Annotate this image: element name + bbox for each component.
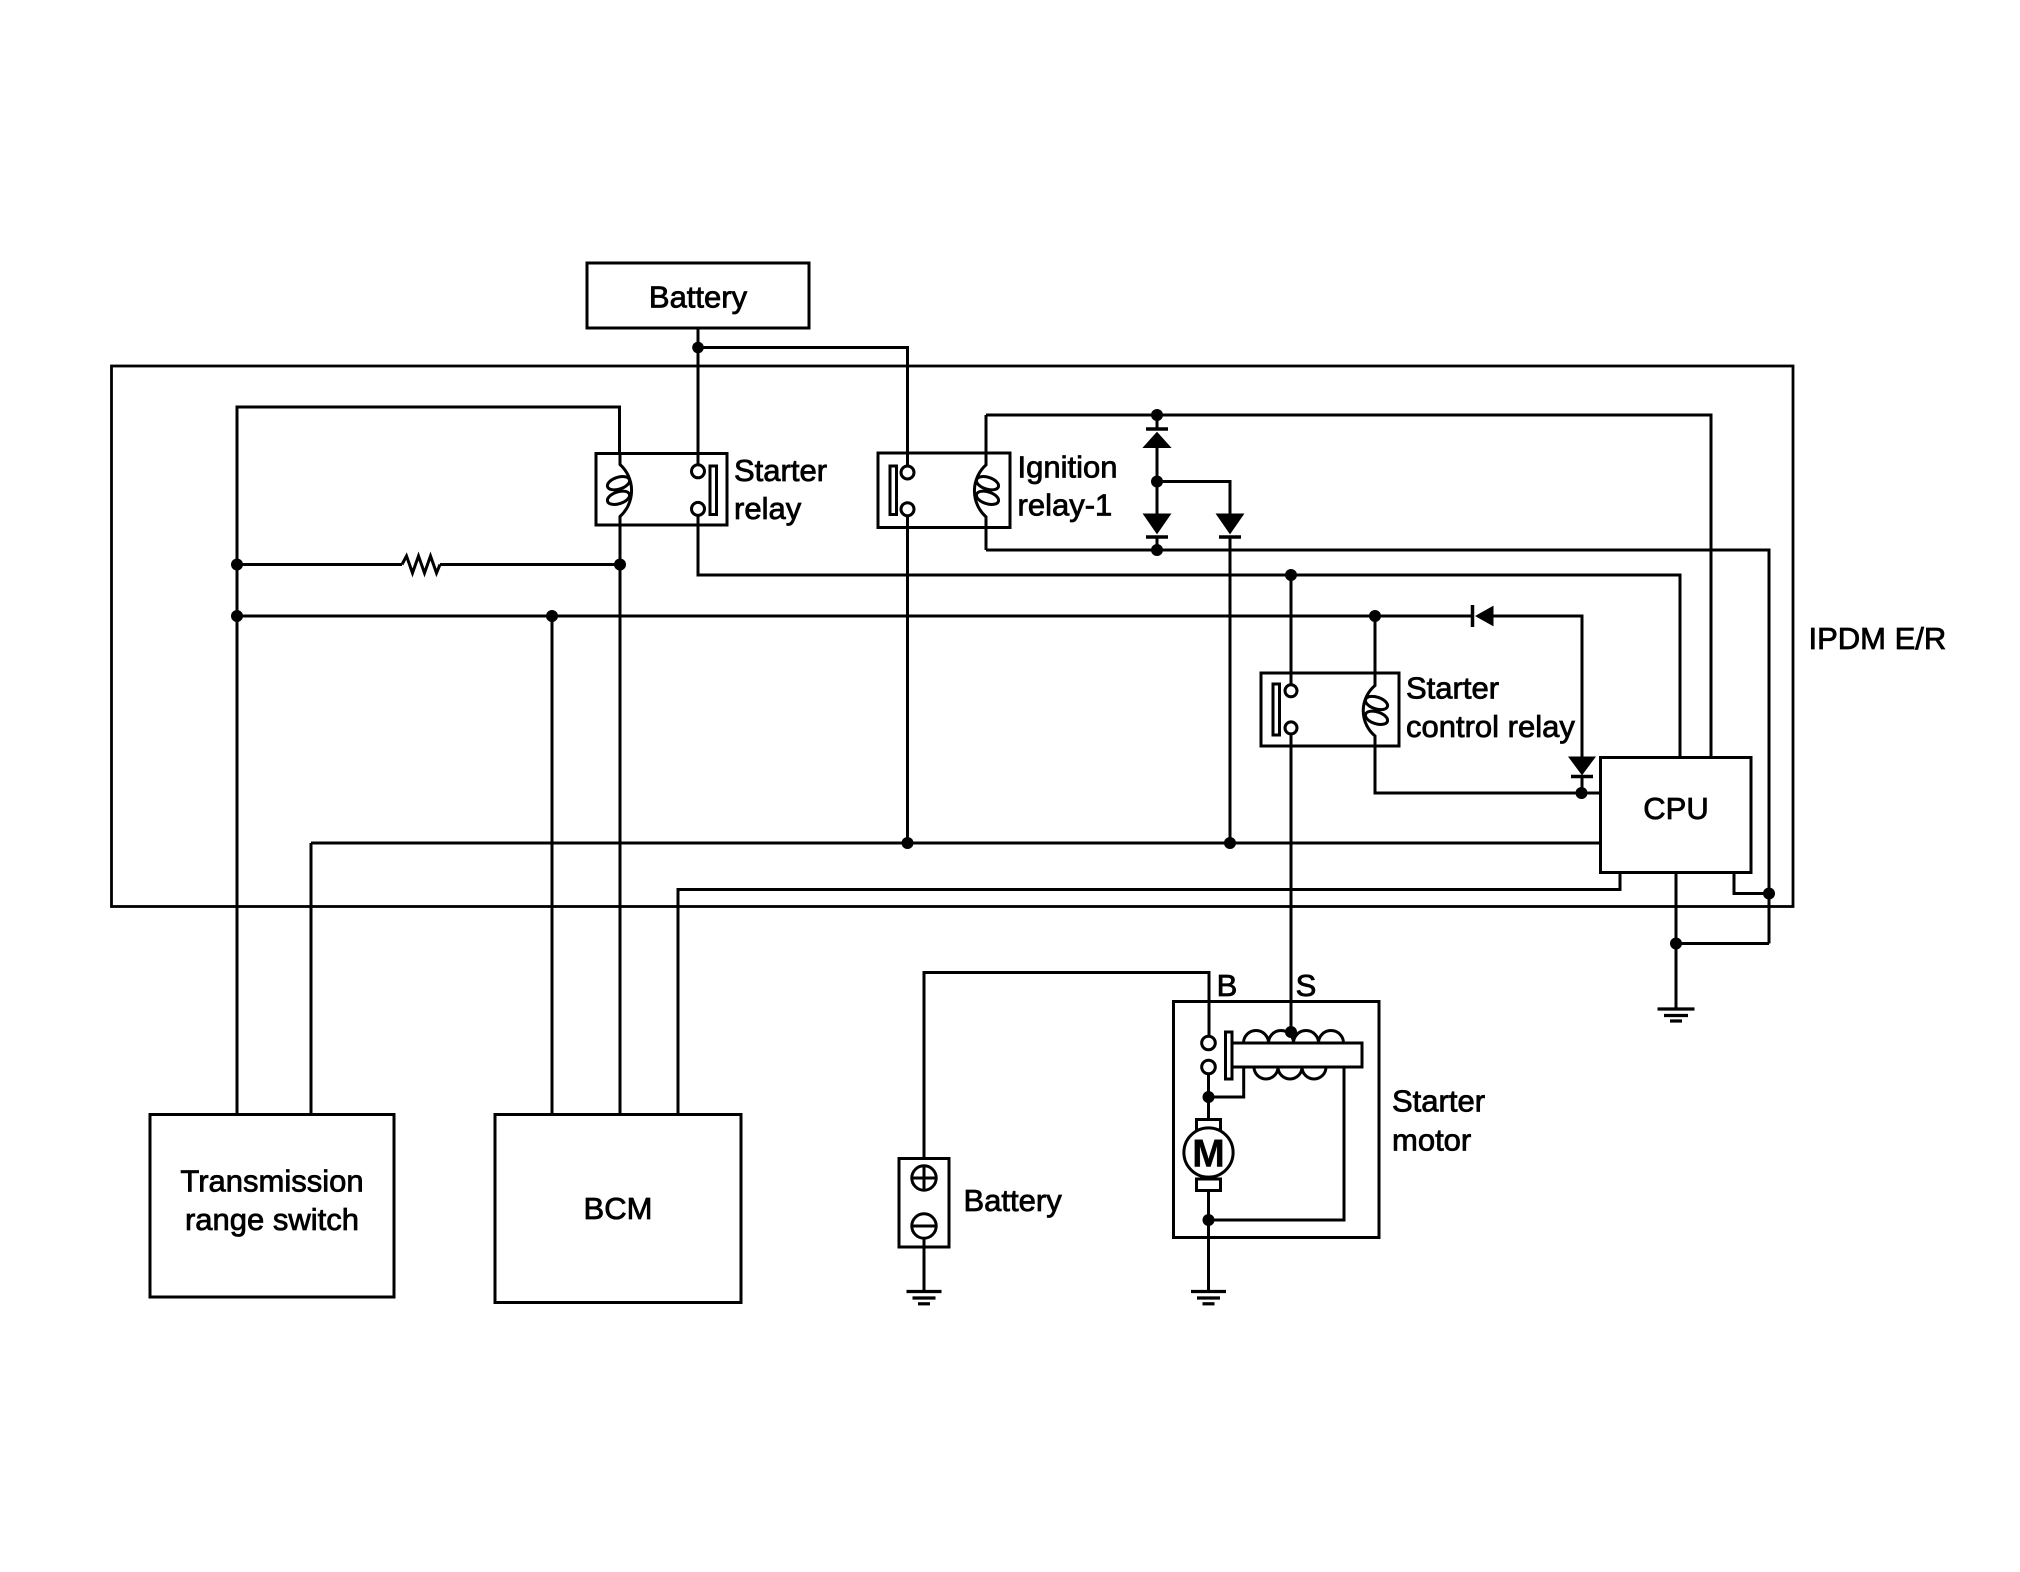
Battery (top) box bbox=[587, 263, 809, 328]
svg-text:IPDM E/R: IPDM E/R bbox=[1809, 621, 1947, 656]
starter control relay contact bar bbox=[1273, 684, 1280, 735]
diode D3 bbox=[1217, 514, 1244, 534]
Transmission range switch box bbox=[150, 1115, 394, 1298]
svg-text:B: B bbox=[1217, 968, 1238, 1003]
solenoid plunger bar bbox=[1226, 1032, 1233, 1079]
wire motor to ground bbox=[1207, 1191, 1210, 1292]
svg-text:Battery: Battery bbox=[649, 280, 748, 315]
wire ignition coil bottom bus y550 to CPU bbox=[986, 550, 1769, 944]
starter relay contact pin bottom bbox=[692, 502, 705, 515]
solenoid coil bottom arcs bbox=[1254, 1067, 1326, 1079]
wire contact to motor bbox=[1207, 1074, 1210, 1120]
wire y575 to control relay contact bbox=[1290, 575, 1293, 684]
node y481 junction bbox=[1151, 476, 1163, 488]
wire D4 to D5 bbox=[1493, 616, 1582, 757]
pin label B bbox=[1217, 968, 1238, 1003]
starter relay label bbox=[734, 453, 827, 526]
diode D1 cathode bar bbox=[1146, 427, 1168, 431]
wire transmission range switch to starter relay coil bbox=[237, 407, 620, 1115]
starter relay contact pin top bbox=[692, 465, 705, 478]
resistor bbox=[402, 556, 440, 573]
resistor line right segment bbox=[440, 563, 620, 566]
starter relay contact bar bbox=[710, 466, 717, 515]
node bus y616 left bbox=[231, 610, 243, 622]
diode D2 bbox=[1144, 482, 1171, 534]
starter motor contact pin top bbox=[1202, 1036, 1216, 1050]
ground (IPDM) bbox=[1658, 944, 1695, 1022]
wire solenoid return bbox=[1209, 1067, 1345, 1220]
ignition relay-1 contact pin bottom bbox=[901, 503, 914, 516]
battery2 positive terminal bbox=[912, 1166, 936, 1190]
solenoid core bbox=[1232, 1043, 1362, 1067]
starter control relay box bbox=[1261, 673, 1399, 746]
battery2 box bbox=[899, 1159, 949, 1248]
starter relay box bbox=[596, 454, 727, 526]
ground (starter motor) bbox=[1191, 1292, 1226, 1304]
node resistor right bbox=[614, 559, 626, 571]
svg-text:S: S bbox=[1296, 968, 1317, 1003]
diode D1 bbox=[1144, 433, 1171, 448]
ignition relay-1 contact bar bbox=[890, 466, 897, 515]
svg-text:Starter: Starter bbox=[1392, 1084, 1485, 1119]
ignition relay-1 coil bbox=[974, 415, 1000, 550]
node CPU ground junction bbox=[1670, 938, 1682, 950]
wire ignition relay output down to y843 bus bbox=[906, 516, 909, 843]
node CPU right riser bbox=[1763, 888, 1775, 900]
wire contact to solenoid core bbox=[1209, 1067, 1244, 1097]
node battery junction bbox=[692, 342, 704, 354]
motor M1 bbox=[1184, 1128, 1233, 1177]
CPU box bbox=[1601, 758, 1752, 873]
node S wire to solenoid bbox=[1285, 1026, 1297, 1038]
wire battery2 to ground bbox=[923, 1238, 926, 1291]
starter motor label bbox=[1392, 1084, 1485, 1158]
svg-text:range switch: range switch bbox=[185, 1202, 359, 1237]
battery2 label bbox=[964, 1183, 1063, 1218]
ground (battery2) bbox=[907, 1292, 942, 1304]
diode D5 cathode bar bbox=[1571, 775, 1593, 779]
wire node y481 to D3 branch bbox=[1157, 482, 1230, 515]
wire y843 to transmission range switch bbox=[310, 843, 313, 1115]
starter control relay contact pin top bbox=[1285, 685, 1297, 697]
ignition relay-1 contact pin top bbox=[901, 466, 914, 479]
wire D3 down to y843 bus bbox=[1229, 537, 1232, 843]
wire ground junction to right riser bbox=[1676, 942, 1769, 945]
ignition relay-1 label bbox=[1018, 450, 1118, 523]
svg-text:relay-1: relay-1 bbox=[1018, 488, 1113, 523]
node y550 diode tap bbox=[1151, 544, 1163, 556]
node contact junction bbox=[1203, 1091, 1215, 1103]
diode D3 cathode bar bbox=[1219, 535, 1241, 539]
wire CPU center stub to ground bbox=[1675, 873, 1678, 944]
svg-text:motor: motor bbox=[1392, 1123, 1471, 1158]
diode D2 cathode bar bbox=[1146, 537, 1168, 550]
svg-text:Battery: Battery bbox=[964, 1183, 1063, 1218]
motor brush bottom bbox=[1197, 1179, 1221, 1191]
node D5 output bbox=[1576, 787, 1588, 799]
diode D5 bbox=[1569, 757, 1595, 775]
pin label S bbox=[1296, 968, 1317, 1003]
starter control relay coil bbox=[1363, 616, 1600, 793]
resistor line left segment bbox=[237, 563, 402, 566]
battery2 negative terminal bbox=[912, 1214, 936, 1238]
starter motor box bbox=[1174, 1002, 1380, 1238]
svg-text:Starter: Starter bbox=[734, 453, 827, 488]
wire starter relay output bus y575 to CPU bbox=[698, 515, 1680, 757]
svg-text:control relay: control relay bbox=[1406, 709, 1575, 744]
node y843 ignition tap bbox=[902, 837, 914, 849]
wire bus y616 bbox=[237, 615, 1472, 618]
diode D4 bbox=[1476, 607, 1493, 626]
starter motor contact pin bottom bbox=[1202, 1060, 1216, 1074]
node bus y616 BCM tap bbox=[546, 610, 558, 622]
BCM box bbox=[495, 1115, 741, 1303]
svg-text:BCM: BCM bbox=[584, 1191, 653, 1226]
wire starter relay coil to BCM pin 2 bbox=[619, 525, 622, 1115]
ignition relay-1 box bbox=[878, 453, 1010, 528]
starter relay coil bbox=[606, 454, 632, 526]
IPDM E/R label bbox=[1809, 621, 1947, 656]
starter control relay label bbox=[1406, 671, 1575, 745]
svg-text:relay: relay bbox=[734, 491, 802, 526]
wire battery2 to starter motor B terminal bbox=[924, 973, 1209, 1159]
wire battery to starter relay contact bbox=[697, 328, 700, 465]
node y843 diode tap bbox=[1224, 837, 1236, 849]
svg-text:Starter: Starter bbox=[1406, 671, 1499, 706]
node y415 diode tap bbox=[1151, 409, 1163, 421]
node y616 control relay coil tap bbox=[1369, 610, 1381, 622]
node motor return junction bbox=[1203, 1214, 1215, 1226]
wire D1 to node y481 bbox=[1156, 448, 1159, 482]
svg-text:Ignition: Ignition bbox=[1018, 450, 1118, 485]
wire D5 to CPU line bbox=[1581, 777, 1584, 794]
wire S control relay contact to starter motor bbox=[1290, 734, 1293, 1032]
solenoid coil top arcs bbox=[1244, 1030, 1344, 1043]
wire ignition coil top bus y415 to CPU bbox=[986, 415, 1711, 758]
svg-text:Transmission: Transmission bbox=[180, 1164, 363, 1199]
svg-text:CPU: CPU bbox=[1643, 791, 1708, 826]
wire BCM pin 1 bbox=[551, 616, 554, 1115]
wire CPU bottom right stub bbox=[1734, 873, 1769, 894]
diode D1 anode wire bbox=[1156, 415, 1159, 429]
wire CPU bottom left stub to BCM bbox=[678, 873, 1620, 1115]
node y575 control relay tap bbox=[1285, 569, 1297, 581]
starter control relay contact pin bottom bbox=[1285, 722, 1297, 734]
wire battery junction to ignition relay contact bbox=[698, 348, 908, 467]
wire y843 bus to CPU bbox=[311, 842, 1601, 845]
node resistor left bbox=[231, 559, 243, 571]
IPDM E/R enclosure box bbox=[112, 366, 1794, 907]
diode D4 cathode bar bbox=[1471, 605, 1475, 627]
motor brush top bbox=[1197, 1120, 1221, 1132]
svg-text:M: M bbox=[1192, 1133, 1225, 1176]
